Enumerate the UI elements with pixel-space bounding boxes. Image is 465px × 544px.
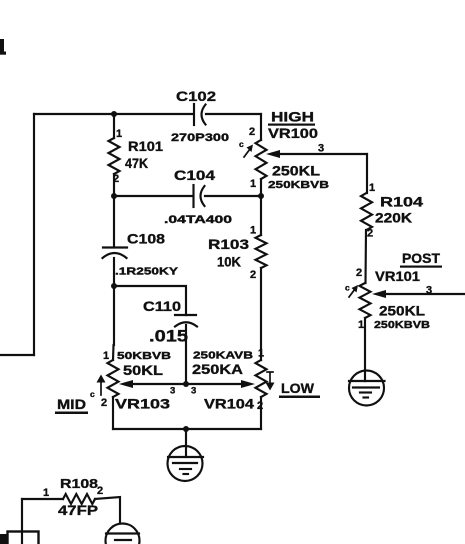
- svg-text:VR101: VR101: [375, 268, 420, 284]
- svg-text:1: 1: [369, 182, 375, 194]
- svg-text:2: 2: [257, 400, 263, 412]
- svg-text:250KAVB: 250KAVB: [193, 350, 254, 362]
- node: bottom bus / ground junction: [183, 426, 189, 432]
- capacitor C108: [103, 231, 179, 278]
- wire: left riser: [33, 114, 35, 355]
- svg-text:10K: 10K: [217, 254, 241, 270]
- svg-text:C108: C108: [127, 231, 165, 247]
- wire: VR101 to ground: [364, 318, 366, 381]
- svg-text:R108: R108: [60, 476, 98, 491]
- svg-text:270P300: 270P300: [171, 132, 229, 144]
- potentiometer VR103: [90, 350, 172, 429]
- node: mid bus / R101 bottom junction: [111, 193, 117, 199]
- svg-text:47FP: 47FP: [58, 502, 98, 518]
- wire: bottom bus: [113, 428, 261, 430]
- resistor R108: [22, 476, 120, 522]
- svg-text:3: 3: [318, 143, 324, 155]
- svg-text:1: 1: [258, 348, 264, 360]
- potentiometer VR104: [192, 348, 275, 430]
- svg-text:POST: POST: [402, 250, 440, 266]
- svg-text:LOW: LOW: [281, 380, 315, 396]
- capacitor C104: [164, 167, 232, 226]
- svg-text:.015: .015: [149, 328, 188, 346]
- svg-text:47K: 47K: [125, 156, 148, 171]
- svg-text:3: 3: [426, 285, 432, 297]
- svg-text:2: 2: [250, 269, 256, 281]
- svg-text:VR100: VR100: [268, 125, 318, 141]
- wire: VR101 wiper out to right edge: [372, 285, 465, 299]
- svg-text:VR104: VR104: [204, 396, 254, 412]
- label LOW: [279, 380, 320, 398]
- wire: top bus (left of C102): [34, 113, 192, 115]
- wire: left column to C108: [113, 196, 115, 247]
- svg-text:c: c: [345, 283, 350, 293]
- potentiometer VR101: [345, 250, 442, 331]
- svg-text:250KL: 250KL: [379, 303, 425, 319]
- ground (right, below VR101): [349, 371, 385, 406]
- wire: VR100 wiper to R104: [266, 143, 367, 194]
- node: wiper bus / C110 junction: [183, 381, 189, 387]
- svg-text:R101: R101: [128, 139, 164, 154]
- svg-text:c: c: [90, 389, 95, 399]
- wire: R103 down to VR104: [260, 268, 262, 360]
- wire: C108 to lower junction: [113, 258, 115, 286]
- svg-text:2: 2: [367, 228, 373, 240]
- wire: branch to C110: [114, 286, 186, 315]
- svg-text:C102: C102: [176, 88, 216, 104]
- node: top bus / R101 junction: [111, 111, 117, 117]
- resistor R104: [361, 182, 423, 240]
- svg-text:2: 2: [101, 397, 107, 409]
- wire: C110 down to wiper bus: [185, 325, 187, 384]
- capacitor C110: [143, 299, 197, 346]
- node: VR100 bottom / mid bus junction: [258, 193, 264, 199]
- resistor R103: [208, 196, 267, 281]
- svg-text:2: 2: [249, 126, 255, 138]
- node: C110 branch junction: [111, 283, 117, 289]
- ground (below R108, cut off): [106, 524, 140, 544]
- ground (center, below bus): [168, 446, 204, 481]
- wire: bottom bus to center ground: [185, 429, 187, 457]
- svg-text:.1R250KY: .1R250KY: [115, 266, 178, 278]
- svg-text:2: 2: [356, 267, 362, 279]
- potentiometer VR100: [239, 109, 330, 197]
- label MID: [55, 396, 88, 414]
- svg-text:1: 1: [250, 225, 256, 237]
- svg-text:1: 1: [116, 128, 122, 140]
- svg-text:VR103: VR103: [115, 396, 170, 412]
- svg-text:HIGH: HIGH: [271, 109, 314, 125]
- svg-text:220K: 220K: [375, 210, 412, 226]
- wire: input stub at left edge: [0, 354, 34, 356]
- wire: mid bus (left of C104): [114, 195, 192, 197]
- wire: left column down to VR103: [113, 286, 115, 345]
- wire: top bus (right of C102): [206, 113, 261, 115]
- label fragment (cut off, top-left): [0, 39, 6, 55]
- svg-text:250KA: 250KA: [192, 361, 243, 377]
- svg-text:250KBVB: 250KBVB: [374, 319, 430, 331]
- svg-text:250KL: 250KL: [272, 163, 320, 179]
- svg-text:2: 2: [113, 173, 119, 185]
- wire: R104 to VR101: [364, 230, 367, 283]
- connector block (bottom-left, cut off): [0, 532, 39, 544]
- svg-text:R103: R103: [208, 236, 249, 252]
- resistor R101: [109, 114, 164, 196]
- svg-text:R104: R104: [380, 194, 423, 210]
- wire: wiper bus VR103 to VR104: [119, 380, 255, 397]
- svg-text:c: c: [239, 139, 244, 149]
- wire: R108 left lead down: [21, 499, 23, 544]
- svg-text:1: 1: [43, 487, 49, 499]
- wire: mid bus (right of C104): [205, 195, 261, 197]
- svg-text:250KBVB: 250KBVB: [268, 179, 330, 191]
- svg-text:3: 3: [170, 386, 175, 397]
- svg-text:MID: MID: [57, 396, 86, 412]
- svg-text:1: 1: [358, 319, 364, 331]
- svg-text:1: 1: [103, 350, 109, 362]
- svg-text:.04TA400: .04TA400: [164, 214, 232, 226]
- svg-text:3: 3: [191, 386, 196, 397]
- svg-text:C104: C104: [174, 167, 215, 183]
- svg-text:1: 1: [250, 178, 256, 190]
- svg-text:50KL: 50KL: [123, 362, 164, 378]
- svg-text:C110: C110: [143, 299, 181, 314]
- capacitor C102: [171, 88, 229, 144]
- svg-text:50KBVB: 50KBVB: [117, 350, 172, 362]
